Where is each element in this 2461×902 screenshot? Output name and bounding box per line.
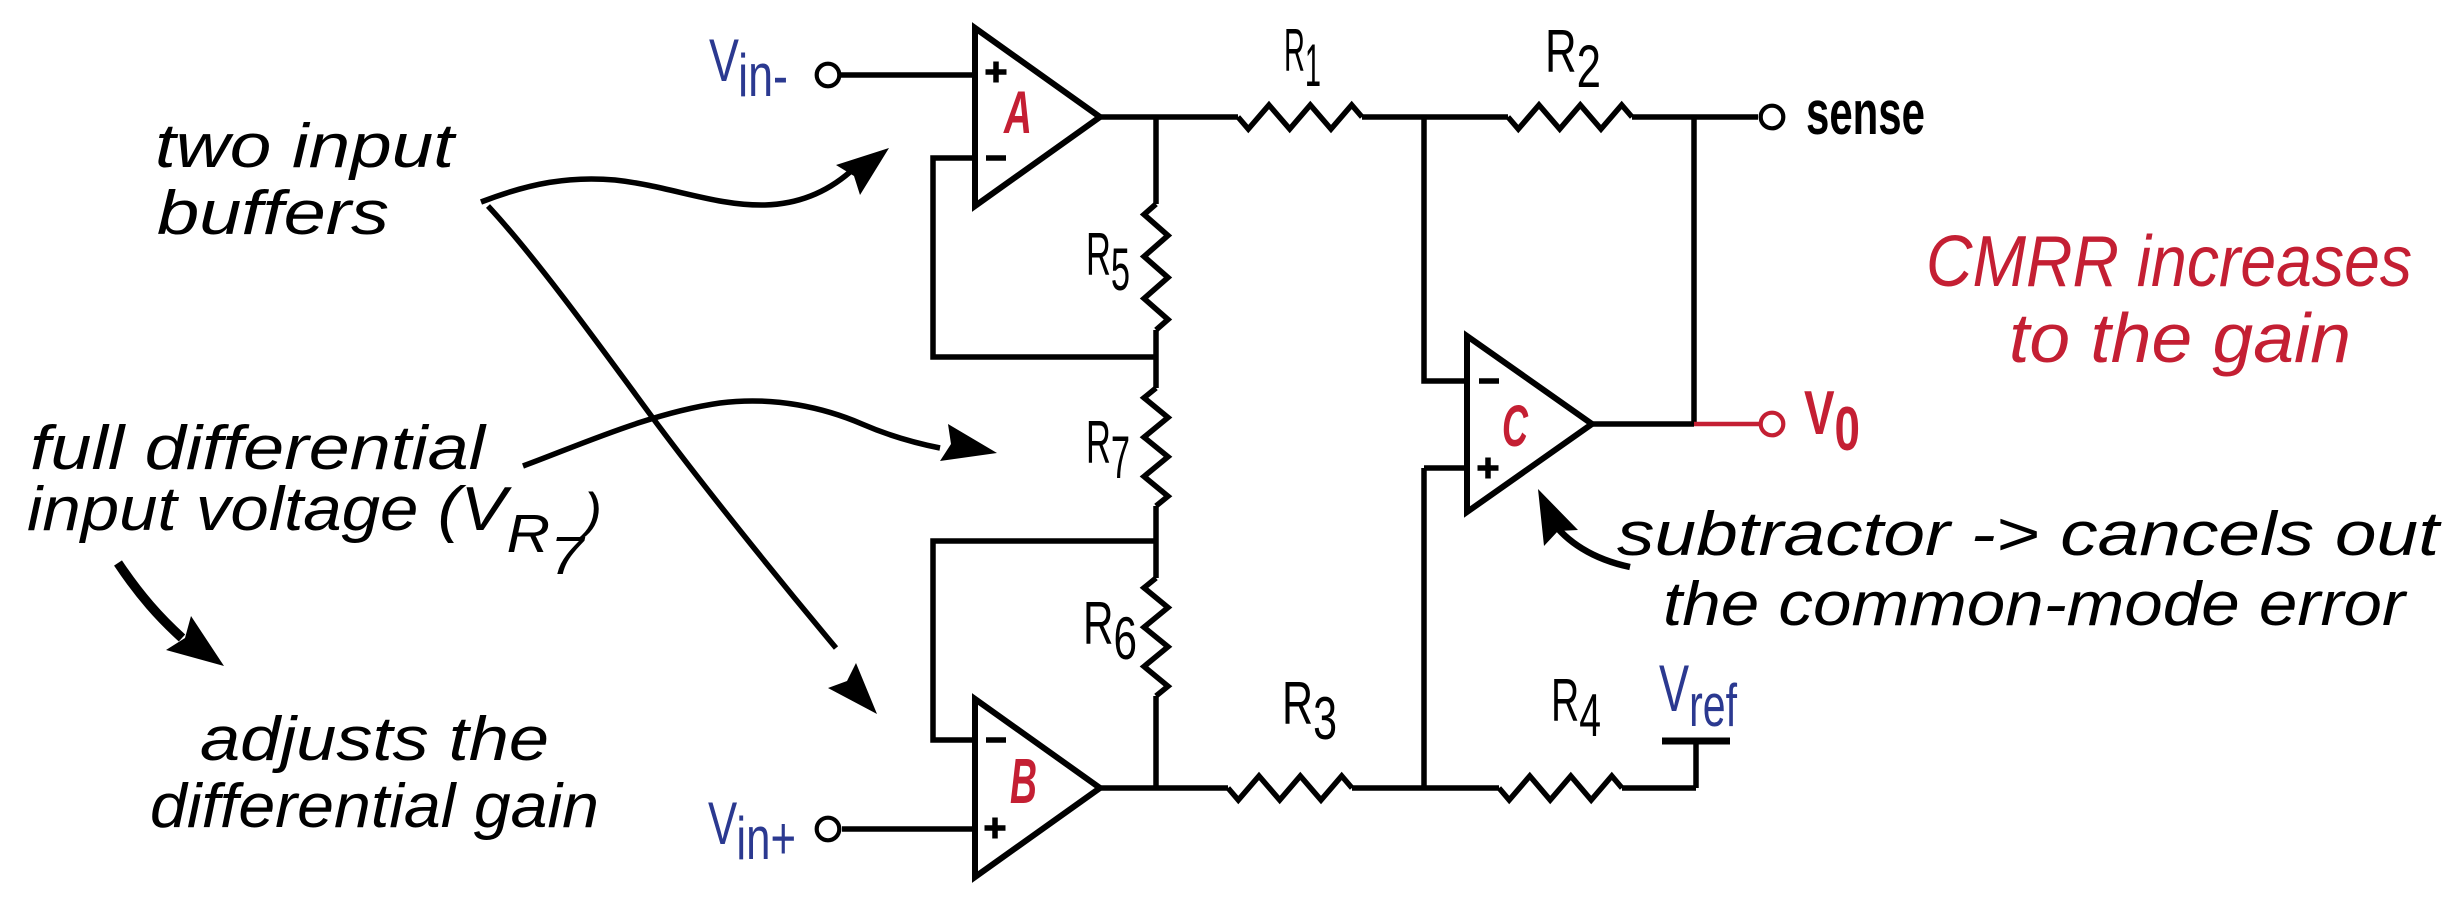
- svg-text:sense: sense: [1806, 79, 1925, 148]
- svg-text:subtractor -> cancels out: subtractor -> cancels out: [1617, 500, 2442, 569]
- svg-text:full differential: full differential: [30, 414, 488, 483]
- svg-text:C: C: [1502, 394, 1529, 459]
- svg-text:buffers: buffers: [157, 179, 389, 248]
- svg-text:adjusts the: adjusts the: [200, 705, 549, 774]
- svg-text:B: B: [1010, 745, 1037, 817]
- svg-text:to the gain: to the gain: [2009, 299, 2351, 377]
- svg-text:the common-mode error: the common-mode error: [1663, 570, 2408, 639]
- svg-text:two input: two input: [155, 112, 457, 181]
- svg-text:A: A: [1003, 79, 1032, 146]
- svg-text:CMRR increases: CMRR increases: [1926, 222, 2412, 302]
- svg-text:differential gain: differential gain: [150, 772, 599, 841]
